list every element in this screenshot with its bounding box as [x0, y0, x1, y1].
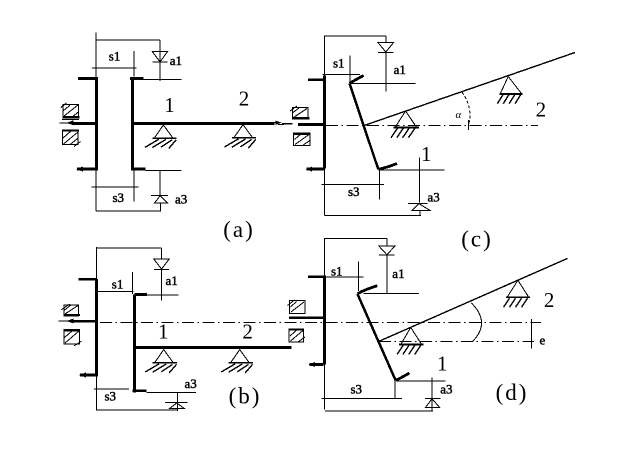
svg-text:a1: a1 — [170, 53, 182, 68]
svg-text:a1: a1 — [166, 273, 178, 288]
svg-text:s3: s3 — [348, 184, 360, 199]
svg-text:2: 2 — [544, 288, 555, 312]
svg-text:s3: s3 — [351, 381, 363, 396]
svg-text:a3: a3 — [428, 190, 440, 205]
svg-text:1: 1 — [164, 93, 175, 117]
svg-text:a1: a1 — [392, 266, 404, 281]
svg-text:s1: s1 — [109, 49, 121, 64]
svg-text:s1: s1 — [112, 277, 124, 292]
svg-text:e: e — [540, 333, 546, 348]
svg-text:2: 2 — [536, 98, 547, 122]
svg-text:1: 1 — [421, 142, 432, 166]
svg-text:a3: a3 — [440, 381, 452, 396]
svg-text:α: α — [456, 109, 462, 121]
svg-text:s3: s3 — [113, 190, 125, 205]
svg-text:(b): (b) — [229, 384, 262, 409]
svg-text:(c): (c) — [461, 227, 493, 252]
svg-text:a3: a3 — [175, 192, 187, 207]
svg-text:2: 2 — [239, 87, 250, 111]
svg-text:a3: a3 — [185, 376, 197, 391]
svg-text:s3: s3 — [105, 388, 117, 403]
svg-text:1: 1 — [437, 352, 448, 376]
svg-text:s1: s1 — [333, 56, 345, 71]
svg-text:s1: s1 — [331, 263, 343, 278]
svg-text:2: 2 — [242, 320, 253, 344]
svg-text:1: 1 — [158, 320, 169, 344]
svg-text:(d): (d) — [496, 380, 529, 405]
svg-text:a1: a1 — [394, 62, 406, 77]
svg-text:(a): (a) — [223, 217, 255, 242]
